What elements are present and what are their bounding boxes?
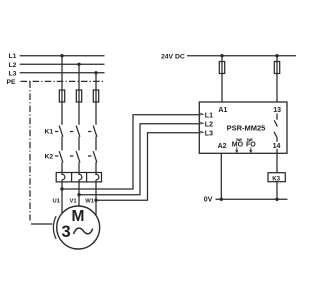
svg-text:0V: 0V (204, 197, 213, 204)
pin MO semiconductor symbol (237, 138, 241, 141)
contactor K2 contact blade pole1 (59, 151, 63, 162)
fuse F2 (76, 90, 81, 102)
junction dot 24V/13 (275, 54, 278, 57)
terminal block connector symbol 3 (96, 173, 99, 180)
wire motor lead V1 (78, 180, 80, 206)
junction dot W1 tap (94, 199, 97, 202)
junction dot 0V/A2 (220, 198, 223, 201)
wire 0V bus (216, 198, 288, 200)
svg-text:FO: FO (246, 141, 256, 148)
svg-text:24V DC: 24V DC (161, 53, 185, 60)
contactor K1 contact blade pole2 (76, 126, 80, 137)
svg-text:3: 3 (62, 223, 71, 241)
contactor K2 contact blade pole3 (93, 151, 97, 162)
svg-text:A2: A2 (218, 143, 227, 150)
svg-text:K3: K3 (272, 175, 280, 182)
pin L2 input arrow (200, 122, 205, 126)
svg-text:MO: MO (232, 141, 244, 148)
wire 24V DC bus (187, 55, 296, 57)
svg-text:L2: L2 (9, 62, 17, 69)
wire 14 to K3 (276, 153, 278, 172)
svg-text:L3: L3 (205, 131, 213, 138)
wire PE vertical drop (dash-dot) (29, 81, 31, 220)
svg-text:K1: K1 (45, 129, 54, 136)
safety relay U1 PSR-MM25 box (199, 102, 287, 153)
junction dot V1 tap (77, 193, 80, 196)
relay output contact lead from 13 (276, 114, 278, 120)
svg-text:L2: L2 (205, 122, 213, 129)
svg-text:K2: K2 (45, 153, 54, 160)
terminal block divider 1 (71, 173, 73, 182)
pin FO semiconductor symbol (248, 138, 252, 141)
junction dot 24V/A1 (220, 54, 223, 57)
svg-text:L1: L1 (205, 113, 213, 120)
fuse F5 (274, 62, 279, 74)
relay output contact lead to 14 (276, 138, 278, 142)
wire phase3 upper (95, 73, 97, 174)
pin MO output arrow (236, 147, 238, 150)
svg-text:U1: U1 (53, 199, 61, 205)
svg-text:L3: L3 (9, 70, 17, 77)
motor M1 circle (57, 206, 100, 249)
wire K3 to 0V (276, 182, 278, 200)
wire A2 to 0V (220, 153, 222, 199)
svg-text:M: M (72, 208, 85, 225)
junction dot 0V/K3 (275, 198, 278, 201)
relay output contact blade 1 (274, 120, 277, 126)
wire W1 tap to PSR L3 (96, 133, 199, 201)
wire phase1 upper (61, 56, 63, 175)
svg-text:V1: V1 (70, 199, 78, 205)
pin FO output arrow (250, 147, 252, 150)
motor tilde symbol (74, 228, 93, 234)
svg-text:13: 13 (273, 107, 281, 114)
contactor K1 contact blade pole1 (59, 126, 63, 137)
wire PE bus (dash-dot) (21, 80, 105, 82)
svg-text:A1: A1 (218, 107, 227, 114)
wire L3 bus (20, 72, 105, 74)
contactor K1 mechanical link dashes (55, 131, 91, 133)
contactor K2 mechanical link dashes (55, 155, 91, 157)
svg-text:W1: W1 (85, 199, 94, 205)
terminal block connector symbol 2 (79, 173, 82, 180)
relay output contact blade 2 (274, 132, 277, 138)
fuse F3 (93, 90, 98, 102)
junction dot L3/phase3 (94, 71, 97, 74)
junction dot U1 tap (60, 187, 63, 190)
wire L2 bus (20, 63, 105, 65)
contactor K1 contact blade pole3 (93, 126, 97, 137)
svg-text:PSR-MM25: PSR-MM25 (227, 124, 266, 133)
motor frame ground arc (53, 216, 56, 239)
fuse F4 (219, 62, 224, 74)
terminal block connector symbol 1 (62, 173, 65, 180)
pin L1 input arrow (200, 113, 205, 117)
wire A1 supply (221, 56, 223, 102)
wire L1 bus (20, 55, 105, 57)
junction dot L2/phase2 (77, 63, 80, 66)
terminal block outline (56, 173, 101, 182)
contactor K2 contact blade pole2 (76, 151, 80, 162)
svg-text:PE: PE (7, 79, 17, 86)
terminal block divider 2 (86, 173, 88, 182)
wire 13 supply (276, 56, 278, 102)
wire PE to motor frame (31, 223, 53, 225)
wire U1 tap to PSR L1 (62, 115, 199, 189)
svg-text:L1: L1 (9, 53, 17, 60)
wire V1 tap to PSR L2 (79, 124, 199, 195)
wire motor lead W1 (95, 180, 97, 216)
fuse F1 (59, 90, 64, 102)
pin L3 input arrow (200, 131, 205, 135)
wire 14 label to box edge (276, 149, 278, 154)
svg-text:14: 14 (273, 143, 281, 150)
wire phase2 upper (78, 64, 80, 174)
contactor coil K3 box (268, 173, 285, 182)
wire motor lead U1 (61, 180, 63, 214)
junction dot L1/phase1 (60, 54, 63, 57)
